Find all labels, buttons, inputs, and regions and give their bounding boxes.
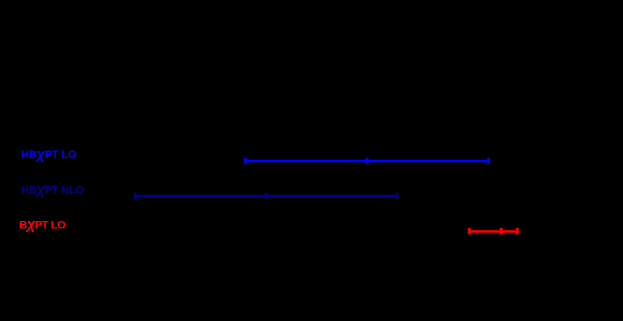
error bar BχPT LO: right cap bbox=[516, 228, 519, 234]
error bar HBχPT NLO: central value tick bbox=[265, 193, 268, 199]
error bar HBχPT LO: central value tick bbox=[366, 158, 369, 164]
error bar BχPT LO: left cap bbox=[468, 228, 471, 234]
error bar HBχPT LO: right cap bbox=[487, 158, 490, 164]
error bar HBχPT NLO: right cap bbox=[396, 193, 399, 199]
error bar HBχPT LO: left cap bbox=[244, 158, 247, 164]
error bar HBχPT NLO: left cap bbox=[134, 193, 137, 199]
error bar HBχPT NLO: horizontal line bbox=[134, 195, 398, 197]
error bar HBχPT LO: horizontal line bbox=[244, 160, 490, 162]
svg-text:BχPT LO: BχPT LO bbox=[19, 217, 66, 233]
svg-text:HBχPT LO: HBχPT LO bbox=[21, 147, 77, 163]
error bar BχPT LO: central value tick bbox=[500, 228, 503, 234]
svg-text:HBχPT NLO: HBχPT NLO bbox=[21, 182, 84, 198]
error bar BχPT LO: horizontal line bbox=[468, 230, 518, 233]
